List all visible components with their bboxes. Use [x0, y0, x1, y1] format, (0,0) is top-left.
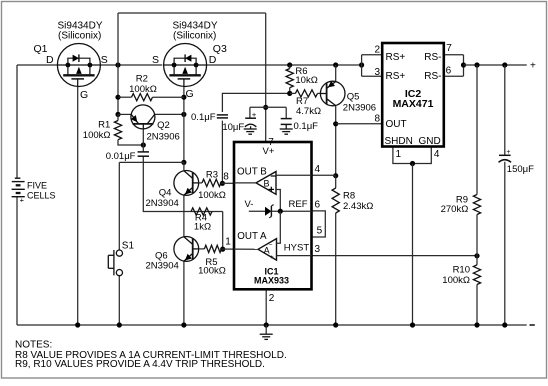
node V+ junction	[263, 105, 268, 110]
label V+	[263, 146, 275, 157]
node gate-Q2 collector	[181, 112, 186, 117]
svg-text:−: −	[269, 241, 273, 248]
label pin3 IC1	[315, 244, 321, 255]
switch S1 pushbutton	[108, 250, 122, 276]
wire Q3 D to IC2 RS+	[206, 64, 362, 66]
svg-text:100kΩ: 100kΩ	[198, 190, 226, 201]
ground IC1 pin2	[260, 325, 273, 339]
svg-text:2: 2	[269, 293, 275, 304]
label pin3 IC2	[375, 67, 381, 78]
wire V+ node vertical	[265, 107, 267, 142]
transistor Q4 2N3904	[174, 171, 200, 196]
wire IC2 gnd loop	[393, 147, 431, 164]
svg-text:S: S	[101, 54, 108, 66]
svg-text:8: 8	[374, 114, 380, 125]
svg-text:S: S	[152, 54, 159, 66]
wire Q6 emitter down	[183, 261, 185, 325]
label R1	[98, 119, 110, 130]
label R8	[343, 191, 355, 202]
node Q6 emitter rail	[181, 322, 186, 327]
svg-text:REF: REF	[289, 199, 308, 210]
wire Q1 gate down	[77, 87, 79, 325]
transistor Q6 2N3904	[174, 237, 200, 262]
wire R1 bottom to Q2 base	[118, 140, 143, 145]
svg-text:8: 8	[223, 172, 229, 183]
label Si9434DY Q3	[172, 21, 217, 32]
wire output + rail	[464, 64, 527, 66]
resistor R8	[332, 176, 339, 213]
label Q5 type	[343, 102, 376, 113]
svg-text:R3: R3	[206, 169, 218, 180]
label MAX933	[254, 276, 289, 286]
wire B- to pin4	[276, 174, 312, 176]
capacitor 0.1uF supply	[281, 119, 292, 129]
label 0.1uF supply	[294, 121, 319, 132]
label D Q1	[46, 54, 54, 66]
node HYST R9 R10 junction	[474, 253, 479, 258]
svg-text:6: 6	[315, 199, 321, 210]
wire Q4 collector	[183, 162, 185, 171]
label RS- b	[424, 71, 441, 82]
wire 150uF top lead	[504, 65, 506, 155]
node Q2 base	[141, 142, 146, 147]
label R6 value	[295, 75, 317, 86]
node Q2 emitter	[115, 112, 120, 117]
label HYST	[284, 243, 310, 254]
svg-text:3: 3	[315, 244, 321, 255]
wire RS+ loop	[362, 55, 383, 76]
wire 150uF bottom lead	[504, 162, 506, 325]
capacitor 0.1uF gate	[217, 115, 228, 118]
svg-text:G: G	[186, 88, 194, 100]
label Q3	[213, 43, 227, 55]
svg-text:+: +	[530, 61, 536, 72]
label pin5 IC1	[317, 225, 323, 236]
label 10uF	[222, 122, 244, 133]
svg-text:+: +	[506, 149, 510, 156]
wire IC1 pin2 down	[265, 290, 267, 326]
wire S loop down to V+ node	[265, 13, 267, 107]
svg-text:2N3906: 2N3906	[147, 132, 180, 143]
label R5 value	[198, 266, 226, 277]
wire bottom rail	[17, 324, 527, 326]
svg-text:6: 6	[446, 66, 452, 77]
label pin2 IC2	[374, 45, 380, 56]
resistor R7	[290, 90, 321, 97]
svg-text:+: +	[270, 254, 274, 261]
label S1	[122, 241, 135, 252]
label Siliconix Q3	[173, 31, 216, 42]
node R2 left	[115, 95, 120, 100]
svg-text:(Siliconix): (Siliconix)	[173, 31, 216, 42]
svg-text:FIVE: FIVE	[27, 180, 47, 190]
notes line 1	[15, 339, 52, 350]
svg-text:Q5: Q5	[347, 92, 360, 103]
label R4 value	[194, 221, 211, 232]
svg-text:1kΩ: 1kΩ	[194, 221, 211, 232]
label IC1	[264, 267, 278, 277]
node R6 R7 junction	[287, 91, 292, 96]
wire Q4 emitter to Q6 collector	[183, 195, 185, 237]
wire R10 bottom lead	[476, 285, 478, 326]
capacitor 150uF	[499, 149, 512, 162]
node Q1 gate bottom rail	[75, 322, 80, 327]
label R6	[295, 66, 307, 77]
svg-text:R2: R2	[136, 73, 148, 84]
svg-text:CELLS: CELLS	[27, 191, 56, 201]
label Q2	[157, 120, 170, 131]
wire Q2 base lead	[142, 129, 144, 145]
wire R9 top lead	[476, 65, 478, 195]
node R10 bottom rail	[474, 322, 479, 327]
label R3	[206, 169, 218, 180]
svg-text:OUT A: OUT A	[237, 231, 267, 242]
label RS- a	[424, 52, 441, 63]
node R5 right pin1	[220, 247, 225, 252]
label pin6 IC2	[446, 66, 452, 77]
svg-text:SHDN: SHDN	[385, 136, 413, 147]
svg-text:NOTES:: NOTES:	[15, 339, 52, 350]
wire 0.1uF supply lead	[285, 107, 287, 118]
svg-text:RS+: RS+	[386, 71, 406, 82]
IC2 box	[382, 43, 444, 147]
svg-text:4: 4	[315, 164, 321, 175]
svg-text:7: 7	[268, 137, 274, 148]
notes line 3	[15, 359, 265, 370]
label R3 value	[198, 190, 226, 201]
op-amp comparator B IC1	[234, 172, 276, 195]
wire pin4 stub	[312, 174, 336, 176]
svg-text:5: 5	[317, 225, 323, 236]
node R8 top pin4	[333, 173, 338, 178]
wire top rail battery to Q1 D	[17, 64, 58, 66]
MOSFET Q3 Si9434DY	[164, 44, 207, 87]
svg-text:10μF: 10μF	[222, 122, 244, 133]
svg-text:+: +	[20, 195, 25, 204]
svg-text:7: 7	[446, 43, 452, 54]
svg-text:D: D	[209, 54, 217, 66]
label R1 value	[83, 130, 111, 141]
wire Q5 emitter up	[335, 65, 337, 81]
node 150uF bottom rail	[502, 322, 507, 327]
svg-text:10kΩ: 10kΩ	[295, 75, 317, 86]
wire S loop up	[117, 13, 119, 65]
label Q4 type	[146, 198, 179, 209]
label R10 value	[442, 275, 470, 286]
wire A- input	[277, 211, 281, 243]
label pin7 IC2	[446, 43, 452, 54]
label G Q3	[186, 88, 194, 100]
wire S1 vertical bottom	[118, 276, 120, 325]
wire Q5 collector down	[335, 106, 337, 176]
label R7	[296, 96, 308, 107]
svg-text:D: D	[46, 54, 54, 66]
label 150uF	[507, 164, 534, 175]
svg-text:R9, R10 VALUES PROVIDE A 4.4V: R9, R10 VALUES PROVIDE A 4.4V TRIP THRES…	[15, 359, 265, 370]
svg-text:B: B	[263, 179, 269, 189]
label SHDN	[385, 136, 413, 147]
label Siliconix Q1	[58, 31, 101, 42]
wire 0.01uF top lead	[142, 145, 144, 152]
wire IC2 OUT	[336, 123, 383, 125]
resistor R3	[200, 179, 223, 186]
label pin8 IC2	[374, 114, 380, 125]
label pin1 IC1	[225, 237, 231, 248]
svg-text:1: 1	[225, 237, 231, 248]
label MAX471	[393, 98, 434, 110]
node gate node Q4 collector	[181, 160, 186, 165]
svg-text:S1: S1	[122, 241, 135, 252]
label R5	[205, 257, 217, 268]
wire A+ input	[277, 255, 312, 257]
svg-text:HYST: HYST	[284, 243, 310, 254]
label R10	[453, 265, 470, 276]
node S1 bottom rail	[117, 322, 122, 327]
node IC2 gnd junction	[410, 161, 415, 166]
svg-text:2N3904: 2N3904	[146, 261, 179, 272]
label R4	[195, 213, 207, 224]
svg-text:Q2: Q2	[157, 120, 170, 131]
label Q4	[159, 187, 172, 198]
svg-text:RS+: RS+	[386, 52, 406, 63]
label OUT B	[237, 167, 267, 178]
label R9 value	[441, 204, 469, 215]
label RS+ a	[386, 52, 406, 63]
wire cap node to R4	[143, 162, 222, 211]
svg-text:R1: R1	[98, 119, 110, 130]
wire HYST to R9 R10	[312, 255, 478, 257]
wire Q3 gate down	[183, 87, 185, 163]
label - output	[530, 324, 535, 326]
svg-text:MAX933: MAX933	[254, 276, 289, 286]
svg-text:100kΩ: 100kΩ	[129, 84, 157, 95]
svg-text:100kΩ: 100kΩ	[198, 266, 226, 277]
label R8 value	[343, 201, 373, 212]
resistor R6	[286, 65, 293, 88]
wire gate cap branch	[222, 93, 289, 112]
label pin4 IC2	[434, 149, 440, 160]
label R2	[136, 73, 148, 84]
label 0.01uF	[106, 151, 136, 162]
svg-text:100kΩ: 100kΩ	[83, 130, 111, 141]
label RS+ b	[386, 71, 406, 82]
wire S1 vertical top	[118, 162, 120, 250]
wire R6 bottom	[289, 88, 291, 94]
wire Q2 emitter	[118, 113, 131, 115]
resistor R10	[473, 265, 480, 285]
wire 0.01uF bottom lead	[142, 157, 144, 163]
wire R9 bottom lead	[476, 215, 478, 256]
label GND	[418, 136, 440, 147]
label + output	[530, 61, 536, 72]
node 150uF top	[502, 62, 507, 67]
wire R8 bottom	[335, 213, 337, 325]
label pin6 IC1	[315, 199, 321, 210]
svg-text:2.43kΩ: 2.43kΩ	[343, 201, 373, 212]
svg-text:150μF: 150μF	[507, 164, 534, 175]
label Q2 type	[147, 132, 180, 143]
label 0.1uF gate	[191, 112, 216, 123]
diode reference V- IC1	[249, 205, 312, 218]
label pin7 IC1	[268, 137, 274, 148]
svg-text:GND: GND	[418, 136, 440, 147]
wire S1 horizontal	[119, 161, 184, 163]
label R2 value	[129, 84, 157, 95]
svg-text:V-: V-	[245, 199, 254, 210]
svg-text:Q4: Q4	[159, 187, 172, 198]
label Q6 type	[146, 261, 179, 272]
IC1 box	[234, 142, 312, 289]
MOSFET Q1 Si9434DY	[57, 44, 100, 87]
label Q6	[155, 250, 168, 261]
node IC2 OUT junction	[333, 121, 338, 126]
svg-text:2: 2	[374, 45, 380, 56]
wire V+ node horizontal	[250, 106, 286, 108]
wire R4 vertical	[222, 212, 224, 250]
node RS+ corner	[359, 62, 364, 67]
label Q5	[347, 92, 360, 103]
node Q5 emitter rail	[333, 62, 338, 67]
notes line 2	[15, 350, 287, 361]
svg-text:0.01μF: 0.01μF	[106, 151, 136, 162]
transistor Q5 2N3906	[320, 81, 345, 106]
wire Q1 S to Q3 S	[100, 64, 162, 66]
svg-text:0.1μF: 0.1μF	[294, 121, 319, 132]
node IC2 gnd rail	[410, 322, 415, 327]
svg-text:4: 4	[434, 149, 440, 160]
node R3 right pin8	[220, 181, 225, 186]
ground 0.1uF supply	[280, 129, 293, 134]
resistor R2	[118, 94, 184, 101]
wire Q2 collector to gate node	[155, 113, 184, 115]
label G Q1	[80, 89, 88, 101]
wire gate cap to R3	[221, 121, 223, 184]
label CELLS	[27, 191, 56, 201]
op-amp comparator A IC1	[234, 239, 277, 261]
capacitor 10uF	[245, 107, 257, 129]
label D Q3	[209, 54, 217, 66]
label REF	[289, 199, 308, 210]
svg-text:RS-: RS-	[424, 71, 441, 82]
svg-text:OUT B: OUT B	[237, 167, 267, 178]
svg-text:2N3906: 2N3906	[343, 102, 376, 113]
wire pin1 stub	[223, 248, 234, 250]
node S junction	[115, 62, 120, 67]
svg-text:MAX471: MAX471	[393, 98, 434, 110]
wire R10 top lead	[476, 256, 478, 265]
label R7 value	[296, 106, 321, 117]
label pin1 IC2	[396, 149, 402, 160]
node R2 right	[181, 95, 186, 100]
svg-text:0.1μF: 0.1μF	[191, 112, 216, 123]
wire S loop top	[118, 12, 266, 14]
node REF junction	[278, 209, 283, 214]
label S Q3	[152, 54, 159, 66]
resistor R4	[191, 208, 212, 215]
svg-text:100kΩ: 100kΩ	[442, 275, 470, 286]
wire IC2 gnd down	[412, 164, 414, 326]
label OUT IC2	[386, 119, 407, 130]
label pin4 IC1	[315, 164, 321, 175]
svg-text:3: 3	[375, 67, 381, 78]
label Si9434DY Q1	[57, 21, 102, 32]
svg-text:OUT: OUT	[386, 119, 407, 130]
label pin8 IC1	[223, 172, 229, 183]
svg-text:1: 1	[396, 149, 402, 160]
node R6 top	[287, 62, 292, 67]
label OUT A	[237, 231, 267, 242]
label IC2	[405, 88, 422, 100]
node R9 top	[474, 62, 479, 67]
label pin2 IC1	[269, 293, 275, 304]
wire pin8 stub	[222, 182, 234, 184]
wire S node down	[117, 65, 119, 114]
label FIVE	[27, 180, 47, 190]
capacitor 0.01uF	[138, 152, 149, 156]
transistor Q2 2N3906	[131, 105, 155, 129]
svg-text:RS-: RS-	[424, 52, 441, 63]
svg-text:G: G	[80, 89, 88, 101]
svg-text:2N3904: 2N3904	[146, 198, 179, 209]
resistor R9	[473, 195, 480, 215]
wire B+ input	[276, 190, 280, 212]
node IC1 pin2 rail	[264, 322, 269, 327]
label R9	[456, 195, 468, 206]
svg-text:4.7kΩ: 4.7kΩ	[296, 106, 321, 117]
battery B1 five cells	[12, 178, 25, 204]
ground 10uF	[244, 129, 257, 134]
svg-text:(Siliconix): (Siliconix)	[58, 31, 101, 42]
node R8 bottom rail	[333, 322, 338, 327]
svg-text:270kΩ: 270kΩ	[441, 204, 469, 215]
resistor R5	[200, 245, 223, 252]
node RS- corner	[461, 62, 466, 67]
label S Q1	[101, 54, 108, 66]
wire battery vertical top	[16, 65, 18, 179]
wire pin5 pin6 loop	[312, 211, 326, 237]
wire RS- loop	[444, 55, 464, 76]
wire battery vertical bottom	[16, 197, 18, 326]
svg-text:+: +	[252, 110, 257, 119]
label V-	[245, 199, 254, 210]
resistor R1	[114, 114, 121, 139]
label Q1	[34, 43, 48, 55]
